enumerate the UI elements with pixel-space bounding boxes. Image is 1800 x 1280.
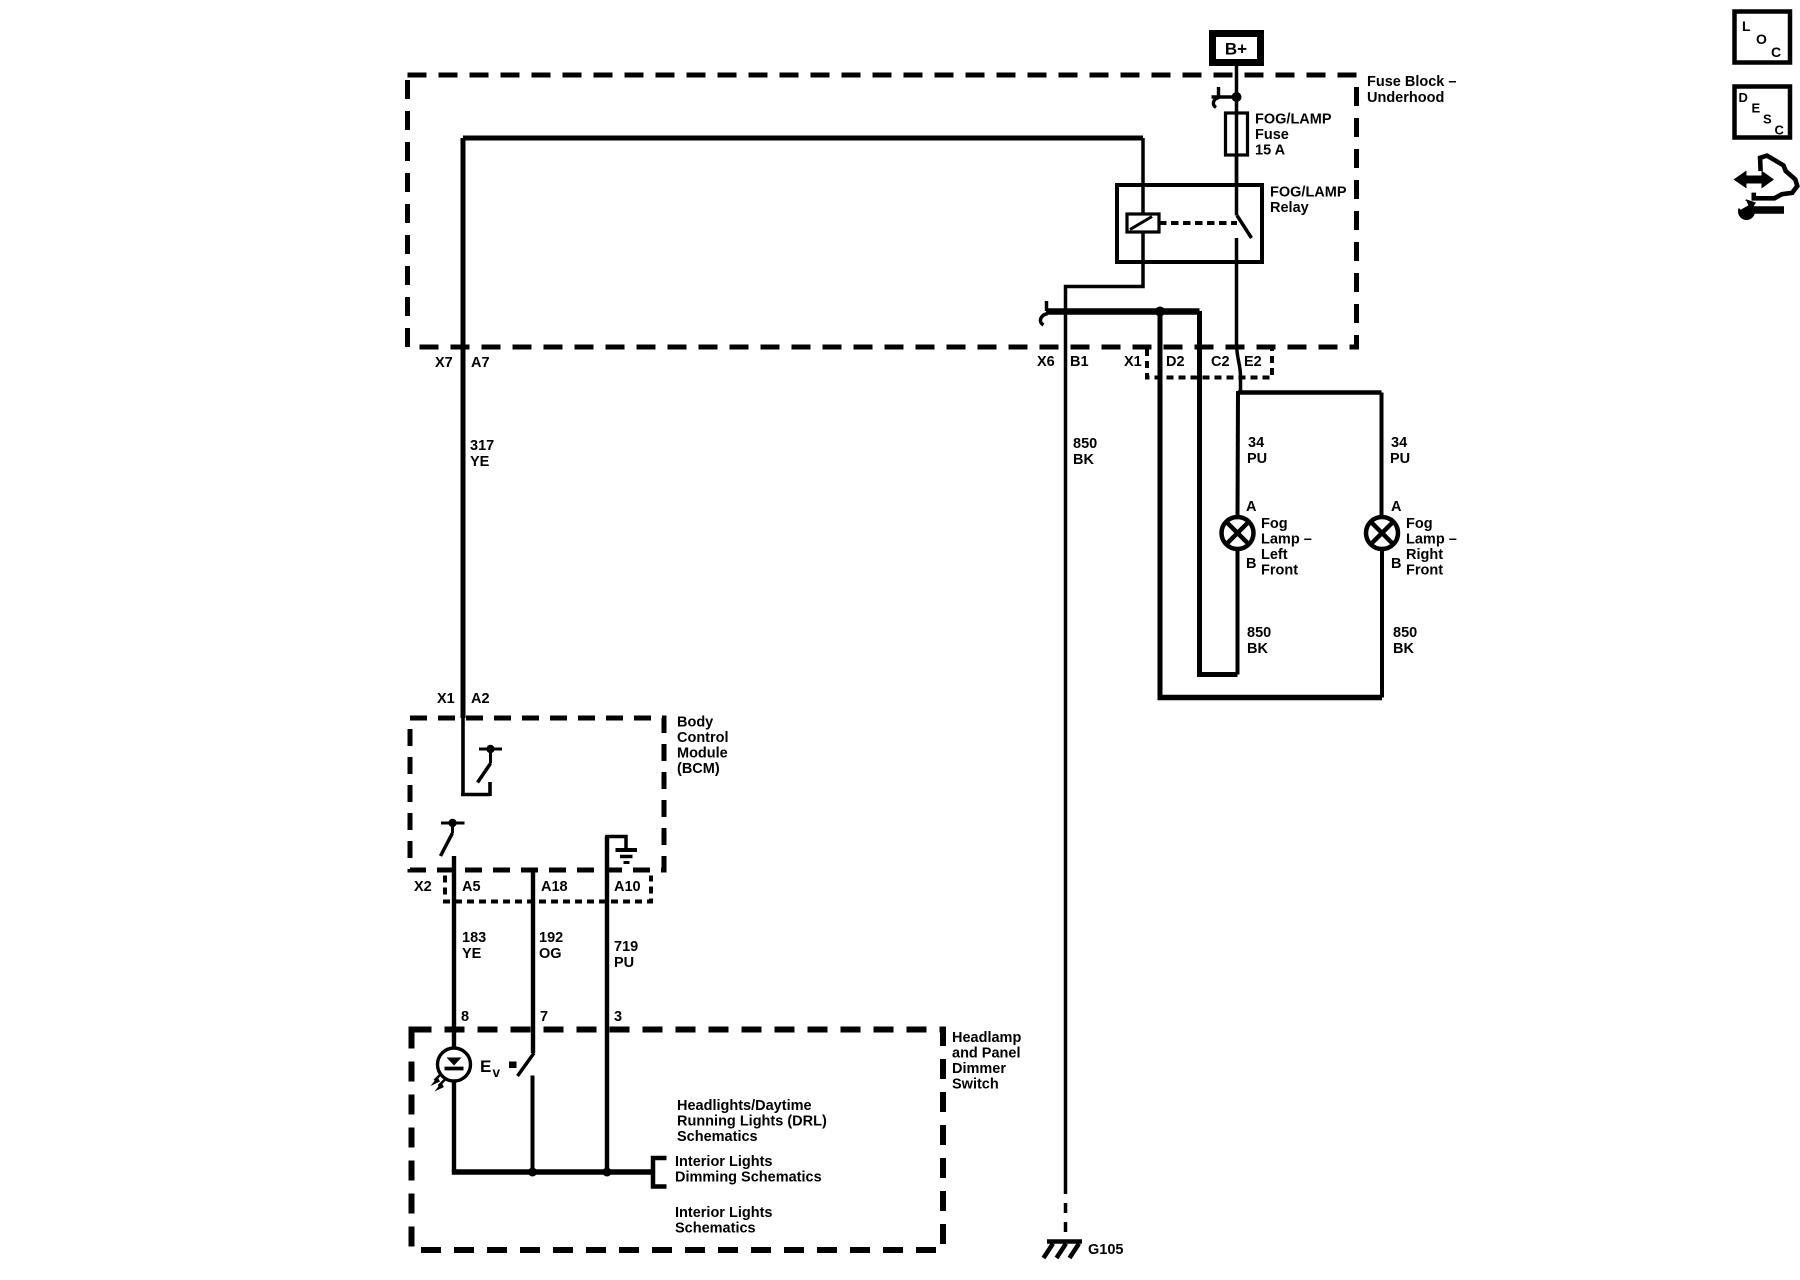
svg-text:X6: X6 — [1037, 354, 1055, 370]
svg-text:15 A: 15 A — [1255, 143, 1286, 159]
svg-text:Interior Lights: Interior Lights — [675, 1154, 772, 1170]
terminal clip at ground bus — [1040, 301, 1047, 325]
svg-text:Dimming Schematics: Dimming Schematics — [675, 1170, 822, 1186]
wire 850 BK from bus through X6 B1 down — [1064, 311, 1068, 1184]
svg-text:Headlamp: Headlamp — [952, 1030, 1021, 1046]
svg-text:850: 850 — [1393, 625, 1417, 641]
svg-text:Lamp –: Lamp – — [1406, 532, 1457, 548]
svg-text:FOG/LAMP: FOG/LAMP — [1270, 185, 1347, 201]
svg-text:Fog: Fog — [1406, 516, 1433, 532]
relay actuator dashed link — [1159, 221, 1237, 225]
fuse FOG/LAMP 15A — [1226, 112, 1332, 159]
wire outer bottom to right lamp — [1158, 695, 1383, 701]
svg-text:YE: YE — [470, 454, 490, 470]
junction dot pin3 branch — [603, 1168, 612, 1177]
ground bus inside fuse block — [1046, 308, 1200, 315]
svg-text:PU: PU — [1390, 451, 1410, 467]
fog lamp left front — [1222, 499, 1312, 579]
dimmer Ev symbol — [480, 1057, 517, 1080]
wire 192 OG from A18 down through pin 7 — [531, 871, 535, 1053]
junction dot on ground bus at D2 branch — [1155, 307, 1165, 317]
svg-text:E: E — [1752, 101, 1761, 116]
svg-text:D: D — [1739, 90, 1748, 105]
junction dot at B+ node — [1232, 92, 1242, 102]
BCM internal ground at A10 — [607, 837, 637, 863]
svg-text:34: 34 — [1248, 435, 1264, 451]
svg-text:8: 8 — [461, 1009, 469, 1025]
junction dot pin7 branch — [528, 1168, 537, 1177]
svg-text:YE: YE — [462, 946, 482, 962]
wire E2 split to both lamps — [1238, 390, 1382, 395]
reference texts — [675, 1098, 827, 1237]
wire switch lower contact to bus — [531, 1076, 535, 1173]
wire coil feed down — [1141, 138, 1145, 214]
bus wire in dimmer switch — [452, 1169, 653, 1175]
svg-text:850: 850 — [1247, 625, 1271, 641]
svg-text:192: 192 — [539, 930, 563, 946]
svg-text:B: B — [1246, 556, 1256, 572]
svg-text:Body: Body — [677, 715, 713, 731]
svg-text:BK: BK — [1247, 641, 1268, 657]
wire 34 PU to right lamp — [1380, 393, 1384, 518]
svg-text:3: 3 — [614, 1009, 622, 1025]
svg-text:A2: A2 — [471, 691, 490, 707]
svg-text:A18: A18 — [541, 879, 568, 895]
svg-text:E2: E2 — [1244, 354, 1262, 370]
relay coil return wire to ground bus — [1066, 232, 1144, 311]
svg-text:(BCM): (BCM) — [677, 761, 720, 777]
svg-text:850: 850 — [1073, 436, 1097, 452]
svg-text:D2: D2 — [1166, 354, 1185, 370]
ground G105 — [1044, 1242, 1124, 1259]
svg-text:L: L — [1742, 18, 1751, 34]
dimmer switch blade — [518, 1053, 535, 1076]
relay FOG/LAMP box — [1117, 185, 1347, 263]
fuse block underhood dashed box — [408, 74, 1457, 347]
svg-text:Interior Lights: Interior Lights — [675, 1205, 772, 1221]
svg-text:317: 317 — [470, 438, 494, 454]
wire left lamp B down — [1236, 549, 1240, 675]
svg-text:Left: Left — [1261, 547, 1288, 563]
terminal clip at B+ node — [1212, 87, 1235, 108]
wire 719 PU from A10 down through pin 3 — [605, 836, 609, 1172]
B+ feed box — [1213, 34, 1261, 63]
svg-text:A: A — [1391, 499, 1402, 515]
reference bracket — [653, 1158, 667, 1187]
relay switch output wire to E2 — [1237, 238, 1241, 391]
svg-text:C: C — [1775, 123, 1785, 138]
svg-text:PU: PU — [1247, 451, 1267, 467]
wire 850 BK dashed continuation to G105 — [1064, 1184, 1068, 1239]
svg-text:719: 719 — [614, 939, 638, 955]
svg-text:A: A — [1246, 499, 1257, 515]
svg-text:FOG/LAMP: FOG/LAMP — [1255, 112, 1332, 128]
body control module BCM dashed box — [410, 715, 729, 871]
svg-text:BK: BK — [1073, 452, 1094, 468]
svg-text:Relay: Relay — [1270, 200, 1309, 216]
svg-text:X7: X7 — [435, 355, 453, 371]
wire 317 YE from X7 A7 down to BCM — [461, 138, 466, 718]
svg-text:PU: PU — [614, 955, 634, 971]
relay switch common wire — [1235, 155, 1239, 216]
svg-text:B+: B+ — [1225, 40, 1247, 59]
svg-text:Schematics: Schematics — [675, 1221, 756, 1237]
svg-text:O: O — [1756, 31, 1767, 47]
svg-text:BK: BK — [1393, 641, 1414, 657]
wire 183 YE from A5 down through pin 8 — [452, 856, 456, 1049]
svg-text:B: B — [1391, 556, 1401, 572]
svg-text:7: 7 — [540, 1009, 548, 1025]
headlamp and panel dimmer switch dashed box — [412, 1030, 1022, 1251]
svg-text:X2: X2 — [414, 879, 432, 895]
LED indicator in dimmer switch — [431, 1048, 471, 1092]
svg-text:Schematics: Schematics — [677, 1129, 758, 1145]
svg-text:Module: Module — [677, 746, 728, 762]
node X1 A2 — [437, 691, 490, 707]
svg-text:34: 34 — [1391, 435, 1407, 451]
svg-text:Front: Front — [1261, 563, 1298, 579]
svg-text:X1: X1 — [437, 691, 455, 707]
repair info icon arrows and wrench — [1734, 156, 1798, 220]
svg-text:S: S — [1763, 112, 1772, 127]
BCM driver switch for A5 output — [441, 819, 465, 856]
LOC icon box — [1735, 12, 1791, 63]
wire inner bottom to left lamp — [1197, 672, 1238, 677]
svg-text:B1: B1 — [1070, 354, 1089, 370]
connector row labels under fuse block — [435, 354, 1262, 371]
wire 34 PU to left lamp — [1236, 391, 1241, 517]
svg-text:Running Lights (DRL): Running Lights (DRL) — [677, 1114, 827, 1130]
fog lamp right front — [1366, 499, 1457, 579]
svg-text:Fuse: Fuse — [1255, 127, 1289, 143]
wire LED to bus — [452, 1081, 456, 1173]
wire D2 branch down — [1158, 311, 1163, 698]
pin labels 8 7 3 — [461, 1009, 622, 1025]
svg-text:v: v — [493, 1065, 501, 1080]
wire right lamp B down — [1380, 549, 1384, 698]
svg-text:Fog: Fog — [1261, 516, 1288, 532]
svg-text:E: E — [480, 1057, 491, 1076]
svg-text:A7: A7 — [471, 355, 490, 371]
relay coil — [1127, 214, 1159, 232]
svg-text:C2: C2 — [1211, 354, 1230, 370]
svg-text:and Panel: and Panel — [952, 1046, 1021, 1062]
DESC icon box — [1735, 87, 1791, 138]
wire B+ down to fuse — [1235, 66, 1239, 185]
connector dashed box X2 A5 A18 A10 — [445, 876, 651, 902]
relay switch blade — [1237, 216, 1252, 239]
BCM driver switch for fog relay — [478, 745, 503, 783]
svg-text:Underhood: Underhood — [1367, 90, 1444, 106]
svg-text:A10: A10 — [614, 879, 641, 895]
svg-text:Fuse Block –: Fuse Block – — [1367, 74, 1456, 90]
svg-text:183: 183 — [462, 930, 486, 946]
svg-text:Right: Right — [1406, 547, 1443, 563]
svg-text:C: C — [1771, 44, 1781, 60]
wire C2 branch down — [1197, 311, 1202, 675]
svg-text:Dimmer: Dimmer — [952, 1061, 1006, 1077]
svg-text:X1: X1 — [1124, 354, 1142, 370]
wire top feed horizontal to relay coil — [463, 136, 1143, 141]
svg-text:Control: Control — [677, 730, 729, 746]
svg-text:Front: Front — [1406, 563, 1443, 579]
svg-text:Lamp –: Lamp – — [1261, 532, 1312, 548]
svg-text:Switch: Switch — [952, 1077, 999, 1093]
svg-text:G105: G105 — [1088, 1242, 1123, 1258]
wire A2 into BCM with L bend — [461, 718, 490, 796]
connector dashed box D2 C2 E2 — [1147, 349, 1272, 378]
svg-text:Headlights/Daytime: Headlights/Daytime — [677, 1098, 812, 1114]
svg-text:OG: OG — [539, 946, 562, 962]
svg-text:A5: A5 — [462, 879, 481, 895]
